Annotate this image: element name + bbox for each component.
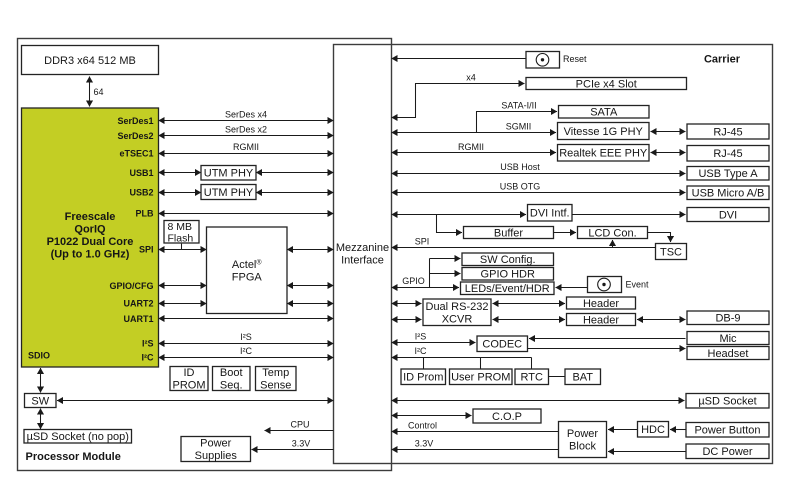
- icon event button: [598, 278, 611, 291]
- wire Buffer to LCD Con: [554, 232, 577, 234]
- wire 3.3V left: [252, 449, 334, 451]
- svg-text:I²S: I²S: [415, 331, 427, 341]
- svg-text:RGMII: RGMII: [233, 142, 259, 152]
- svg-text:Mezzanine: Mezzanine: [336, 242, 389, 254]
- svg-text:Power: Power: [200, 438, 232, 450]
- wire drop to ID Prom: [423, 358, 425, 370]
- svg-text:RTC: RTC: [521, 372, 543, 384]
- connector Header 2: [567, 314, 636, 327]
- phy Vitesse 1G PHY: [558, 123, 650, 140]
- svg-text:Supplies: Supplies: [195, 450, 238, 462]
- svg-text:ID Prom: ID Prom: [403, 372, 443, 384]
- wire I2C left: [159, 357, 334, 359]
- phy UTM PHY 1: [201, 166, 256, 181]
- svg-text:User PROM: User PROM: [451, 372, 510, 384]
- svg-text:SATA: SATA: [590, 107, 618, 119]
- connector uSD Socket: [686, 394, 769, 409]
- svg-text:GPIO: GPIO: [402, 276, 425, 286]
- wire HDC to Power Block: [608, 429, 638, 431]
- sensor Temp Sense: [256, 367, 297, 392]
- wire UART2 CPU to FPGA: [159, 303, 207, 305]
- prom ID Prom: [401, 369, 446, 385]
- svg-text:LCD Con.: LCD Con.: [588, 227, 636, 239]
- svg-text:Header: Header: [583, 314, 619, 326]
- connector DC Power: [686, 444, 769, 459]
- svg-text:SDIO: SDIO: [28, 351, 50, 361]
- wire flash stub to SPI: [181, 244, 183, 250]
- wire SW to uSD socket: [40, 409, 42, 430]
- svg-text:SGMII: SGMII: [506, 122, 532, 132]
- svg-text:BAT: BAT: [572, 372, 593, 384]
- wire branch GPIO HDR: [430, 273, 461, 275]
- block LEDs Event HDR: [461, 282, 555, 295]
- svg-text:SerDes x2: SerDes x2: [225, 124, 267, 134]
- wire RTC to BAT: [549, 376, 566, 378]
- svg-text:SATA-I/II: SATA-I/II: [501, 101, 536, 111]
- svg-text:SPI: SPI: [139, 244, 154, 254]
- svg-text:Boot: Boot: [220, 367, 243, 379]
- svg-text:Freescale: Freescale: [65, 211, 116, 223]
- svg-text:(Up to 1.0 GHz): (Up to 1.0 GHz): [51, 249, 130, 261]
- wire GPIO/CFG CPU to FPGA: [159, 285, 207, 287]
- codec CODEC: [477, 336, 528, 352]
- wire Control: [392, 431, 559, 433]
- svg-text:I²C: I²C: [240, 346, 252, 356]
- wire Realtek to RJ-45: [651, 152, 686, 154]
- svg-text:eTSEC1: eTSEC1: [119, 148, 153, 158]
- Processor Module board outline: [18, 39, 392, 471]
- svg-text:USB Micro A/B: USB Micro A/B: [692, 188, 765, 200]
- wire UTM PHY1 to mezzanine: [256, 172, 334, 174]
- wire FPGA to mezzanine GPIO row: [287, 285, 334, 287]
- connector PCIe x4 Slot: [526, 78, 687, 91]
- label CPU title: [47, 211, 134, 261]
- svg-text:Buffer: Buffer: [494, 227, 523, 239]
- button Power Button: [686, 423, 769, 438]
- connector Mic: [687, 332, 769, 345]
- wire UTM PHY2 to mezzanine: [256, 192, 334, 194]
- svg-text:SerDes x4: SerDes x4: [225, 109, 267, 119]
- svg-text:3.3V: 3.3V: [292, 438, 311, 448]
- wire RGMII right: [392, 152, 557, 154]
- wire FPGA to mezzanine SPI row: [287, 249, 334, 251]
- svg-text:SerDes2: SerDes2: [117, 131, 153, 141]
- wire SPI up to LCD Con: [612, 240, 614, 248]
- svg-text:Reset: Reset: [563, 54, 587, 64]
- connector USB Type A: [687, 167, 769, 181]
- wire FPGA to mezzanine UART2 row: [287, 303, 334, 305]
- prom User PROM: [450, 369, 513, 385]
- svg-text:Seq.: Seq.: [220, 380, 243, 392]
- svg-text:HDC: HDC: [641, 424, 665, 436]
- svg-text:SW Config.: SW Config.: [480, 254, 536, 266]
- svg-text:RJ-45: RJ-45: [713, 148, 742, 160]
- memory DDR3 x64 512 MB: [22, 46, 159, 75]
- Mezzanine Interface connector: [336, 242, 389, 267]
- wire DVI to DVI Intf: [392, 214, 527, 216]
- rtc RTC: [515, 369, 549, 385]
- wire CODEC to Headset: [528, 348, 686, 350]
- prom ID PROM: [170, 367, 208, 392]
- svg-text:FPGA: FPGA: [232, 271, 263, 283]
- svg-text:x4: x4: [466, 73, 476, 83]
- svg-text:Dual RS-232: Dual RS-232: [426, 301, 489, 313]
- wire USB1 to UTM PHY: [159, 172, 202, 174]
- svg-text:PLB: PLB: [136, 209, 155, 219]
- svg-text:UTM PHY: UTM PHY: [204, 168, 254, 180]
- svg-text:QorIQ: QorIQ: [74, 224, 106, 236]
- wire CPU to SW: [40, 368, 42, 393]
- connector RJ-45 lower: [687, 146, 769, 162]
- wire branch to Buffer: [437, 215, 463, 233]
- svg-text:Header: Header: [583, 298, 619, 310]
- connector uSD Socket no pop: [24, 430, 132, 444]
- wire UART1 to XCVR: [392, 319, 422, 321]
- phy Realtek EEE PHY: [558, 145, 650, 162]
- wire drop to User PROM: [480, 358, 482, 370]
- svg-text:USB Type A: USB Type A: [698, 168, 758, 180]
- wire PLB: [159, 213, 334, 215]
- svg-text:USB1: USB1: [129, 168, 153, 178]
- svg-text:SW: SW: [31, 395, 49, 407]
- svg-text:Vitesse 1G PHY: Vitesse 1G PHY: [564, 126, 644, 138]
- wire I2S right: [392, 342, 476, 344]
- wire USB2 to UTM PHY: [159, 192, 202, 194]
- svg-text:Block: Block: [569, 441, 596, 453]
- controller LCD Con: [578, 227, 648, 240]
- memory 8 MB Flash: [164, 221, 199, 245]
- svg-text:PCIe x4 Slot: PCIe x4 Slot: [576, 78, 637, 90]
- connector USB Micro A/B: [687, 186, 769, 200]
- wire CPU power: [265, 430, 334, 432]
- wire PCIe x4: [392, 84, 525, 118]
- svg-text:DB-9: DB-9: [715, 313, 740, 325]
- svg-text:DDR3 x64 512 MB: DDR3 x64 512 MB: [44, 55, 136, 67]
- svg-text:UART2: UART2: [123, 298, 153, 308]
- wire reset: [392, 58, 527, 60]
- svg-text:UART1: UART1: [123, 314, 153, 324]
- connector SATA: [559, 106, 650, 119]
- wire GPIO to LEDs: [392, 287, 460, 289]
- wire Event to LEDs: [556, 287, 588, 289]
- wire DDR3 to CPU 64-bit bus: [89, 77, 91, 107]
- connector Header 1: [567, 297, 636, 310]
- wire Power Button to HDC: [670, 429, 686, 431]
- svg-text:P1022 Dual Core: P1022 Dual Core: [47, 236, 134, 248]
- wire SerDes2 SerDes x2: [159, 135, 334, 137]
- svg-text:Event: Event: [626, 280, 650, 290]
- svg-text:DC Power: DC Power: [702, 446, 752, 458]
- svg-text:Headset: Headset: [708, 348, 749, 360]
- svg-text:LEDs/Event/HDR: LEDs/Event/HDR: [465, 283, 550, 295]
- svg-text:SerDes1: SerDes1: [117, 116, 153, 126]
- svg-text:Processor Module: Processor Module: [26, 451, 121, 463]
- svg-text:µSD Socket (no pop): µSD Socket (no pop): [27, 431, 129, 443]
- svg-text:RGMII: RGMII: [458, 142, 484, 152]
- button Reset: [526, 52, 560, 69]
- svg-text:CODEC: CODEC: [482, 339, 522, 351]
- wire GPIO riser: [429, 259, 431, 288]
- connector RJ-45 upper: [687, 124, 769, 139]
- phy UTM PHY 2: [201, 185, 256, 200]
- wire SW to mezzanine: [57, 400, 334, 402]
- interface DVI Intf: [528, 205, 573, 222]
- button Event: [588, 277, 622, 293]
- transceiver Dual RS-232 XCVR: [423, 299, 491, 326]
- wire uSD socket row: [392, 400, 685, 402]
- wire I2S left: [159, 343, 334, 345]
- svg-text:RJ-45: RJ-45: [713, 126, 742, 138]
- wire XCVR to Header1: [493, 303, 566, 305]
- svg-text:Carrier: Carrier: [704, 54, 741, 66]
- svg-text:I²S: I²S: [240, 332, 252, 342]
- svg-text:CPU: CPU: [290, 420, 309, 430]
- wire COP row: [392, 415, 472, 417]
- svg-text:Power Button: Power Button: [694, 425, 760, 437]
- wire DC Power to Power Block: [608, 451, 686, 453]
- buffer Buffer: [464, 227, 554, 240]
- wire eTSEC1 RGMII: [159, 153, 334, 155]
- svg-text:ID: ID: [184, 367, 195, 379]
- wire SerDes1 SerDes x4: [159, 120, 334, 122]
- block SW Config: [462, 253, 554, 266]
- svg-text:USB Host: USB Host: [500, 162, 540, 172]
- Carrier board outline: [334, 45, 773, 464]
- svg-text:64: 64: [94, 87, 104, 97]
- connector DB-9: [687, 311, 769, 325]
- wire SPI CPU to FPGA: [159, 249, 207, 251]
- svg-text:Power: Power: [567, 428, 599, 440]
- connector Headset: [687, 347, 769, 360]
- controller TSC: [656, 244, 687, 260]
- svg-text:8 MB: 8 MB: [168, 221, 193, 233]
- power Power Supplies: [181, 437, 251, 463]
- svg-text:Flash: Flash: [168, 232, 194, 244]
- fpga U2 Actel FPGA: [207, 227, 288, 314]
- svg-text:I²C: I²C: [142, 352, 154, 362]
- svg-text:USB OTG: USB OTG: [500, 182, 541, 192]
- svg-text:USB2: USB2: [129, 187, 153, 197]
- wire Header2 to DB-9: [637, 319, 686, 321]
- svg-text:TSC: TSC: [660, 246, 682, 258]
- svg-text:Mic: Mic: [719, 333, 737, 345]
- wire USB Host: [392, 173, 686, 175]
- wire drop to RTC: [531, 358, 533, 370]
- battery BAT: [565, 369, 601, 385]
- svg-text:UTM PHY: UTM PHY: [204, 187, 254, 199]
- wire SPI right: [392, 247, 656, 249]
- svg-text:GPIO/CFG: GPIO/CFG: [109, 281, 153, 291]
- wire UART2 to XCVR: [392, 303, 422, 305]
- wire USB OTG: [392, 192, 686, 194]
- svg-text:I²C: I²C: [415, 346, 427, 356]
- svg-text:C.O.P: C.O.P: [492, 411, 522, 423]
- svg-text:Interface: Interface: [341, 255, 384, 267]
- wire Mic to CODEC: [529, 338, 686, 340]
- wire XCVR to Header2: [493, 319, 566, 321]
- wire branch SW Config: [430, 258, 461, 260]
- svg-text:Control: Control: [408, 420, 437, 430]
- wire LCD Con to TSC: [648, 233, 671, 243]
- controller HDC: [638, 422, 669, 438]
- svg-text:SPI: SPI: [415, 237, 430, 247]
- svg-text:I²S: I²S: [142, 338, 154, 348]
- svg-text:µSD Socket: µSD Socket: [698, 396, 756, 408]
- wire DVI Intf to DVI: [572, 214, 686, 216]
- wire I2C bus right: [392, 357, 532, 359]
- switch SW: [25, 394, 57, 408]
- wire SGMII: [392, 132, 557, 134]
- connector DVI: [687, 208, 769, 222]
- wire UART1: [159, 318, 334, 320]
- svg-text:PROM: PROM: [173, 380, 206, 392]
- svg-text:XCVR: XCVR: [442, 313, 473, 325]
- processor U1 Freescale QorIQ P1022: [22, 108, 159, 367]
- svg-text:Realtek EEE PHY: Realtek EEE PHY: [559, 148, 648, 160]
- svg-text:Sense: Sense: [260, 380, 291, 392]
- svg-text:GPIO HDR: GPIO HDR: [481, 269, 535, 281]
- svg-text:DVI Intf.: DVI Intf.: [530, 208, 570, 220]
- connector GPIO HDR: [462, 268, 554, 281]
- block Boot Seq: [213, 367, 251, 392]
- wire 3.3V right: [392, 449, 559, 451]
- debug C.O.P: [473, 409, 541, 423]
- svg-text:DVI: DVI: [719, 209, 737, 221]
- svg-text:3.3V: 3.3V: [415, 439, 434, 449]
- power Power Block: [559, 422, 607, 458]
- wire Vitesse to RJ-45: [651, 131, 686, 133]
- svg-text:Temp: Temp: [262, 367, 289, 379]
- icon reset button: [536, 54, 549, 67]
- wire SATA branch: [477, 112, 558, 133]
